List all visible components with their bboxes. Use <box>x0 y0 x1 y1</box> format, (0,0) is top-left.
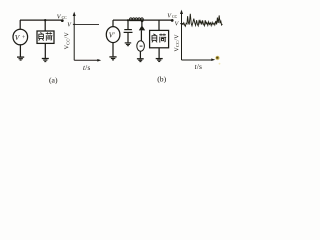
capacitor C plates (b) <box>124 29 132 31</box>
wire rail to load box (b) <box>158 20 160 30</box>
ground under source (a) <box>17 56 24 58</box>
wire marker to meter (b) <box>140 30 142 41</box>
axis y (b) <box>181 12 183 60</box>
svg-text:CC: CC <box>62 16 68 20</box>
meter cell (b) <box>137 41 145 51</box>
node Vcc terminal (a) <box>61 19 64 22</box>
axis x (b) <box>182 59 213 61</box>
ground under capacitor (b) <box>125 42 132 44</box>
wire source stub (a) <box>19 20 21 29</box>
svg-text:V′: V′ <box>109 32 115 40</box>
load label 荷 (b) <box>159 34 166 43</box>
svg-text:+: + <box>22 35 25 41</box>
wire top rail (a) <box>20 19 62 21</box>
load box (b) <box>150 30 169 47</box>
svg-text:(b): (b) <box>157 74 166 83</box>
tick at V level (b) <box>180 23 183 25</box>
ground under source (b) <box>109 56 116 58</box>
load box (a) <box>37 31 54 43</box>
wire source to ground (b) <box>112 43 114 57</box>
Vcc constant line (a) <box>75 24 99 26</box>
noisy Vcc waveform (b) <box>182 14 222 26</box>
junction capacitor branch (b) <box>127 19 129 21</box>
wire load box to ground (a) <box>44 43 46 58</box>
svg-text:V: V <box>67 22 72 28</box>
svg-text:(a): (a) <box>49 76 58 85</box>
svg-text:CC: CC <box>172 15 178 19</box>
ground under load (a) <box>42 58 49 60</box>
tick at V level (a) <box>73 23 76 25</box>
voltage source V+ (a) <box>13 29 28 45</box>
gold ink dot <box>215 56 219 60</box>
svg-text:VCC/V: VCC/V <box>174 34 180 52</box>
axis x (a) <box>74 59 99 61</box>
wire junction down (b) <box>141 21 143 27</box>
svg-text:VCC/V: VCC/V <box>65 32 71 50</box>
ground under load (b) <box>156 58 163 60</box>
svg-text:V: V <box>175 22 180 28</box>
wire top rail (b) <box>113 19 172 21</box>
svg-text:t/s: t/s <box>83 64 91 72</box>
inductor L on rail (b) <box>129 18 143 20</box>
load label 负 (a) <box>39 33 44 41</box>
voltage source V' (b) <box>106 27 120 43</box>
polarized element marker (b) <box>139 25 145 30</box>
wire rail to capacitor (b) <box>127 20 129 29</box>
wire source stub (b) <box>112 20 114 27</box>
junction above load (a) <box>44 19 46 21</box>
junction after inductor (b) <box>141 19 144 22</box>
wire rail to load box (a) <box>44 20 46 31</box>
ground under meter (b) <box>137 58 144 60</box>
load label 负 (b) <box>152 34 157 43</box>
load label 荷 (a) <box>46 32 53 41</box>
gold ink speck <box>219 63 221 65</box>
wire source to ground (a) <box>19 45 21 57</box>
wire load box to ground (b) <box>158 48 160 58</box>
wire meter to ground (b) <box>139 51 141 58</box>
axis y (a) <box>73 14 75 60</box>
node Vcc terminal (b) <box>171 19 174 22</box>
wire capacitor to ground (b) <box>127 33 129 43</box>
svg-text:V: V <box>15 33 21 42</box>
svg-text:t/s: t/s <box>195 63 203 71</box>
